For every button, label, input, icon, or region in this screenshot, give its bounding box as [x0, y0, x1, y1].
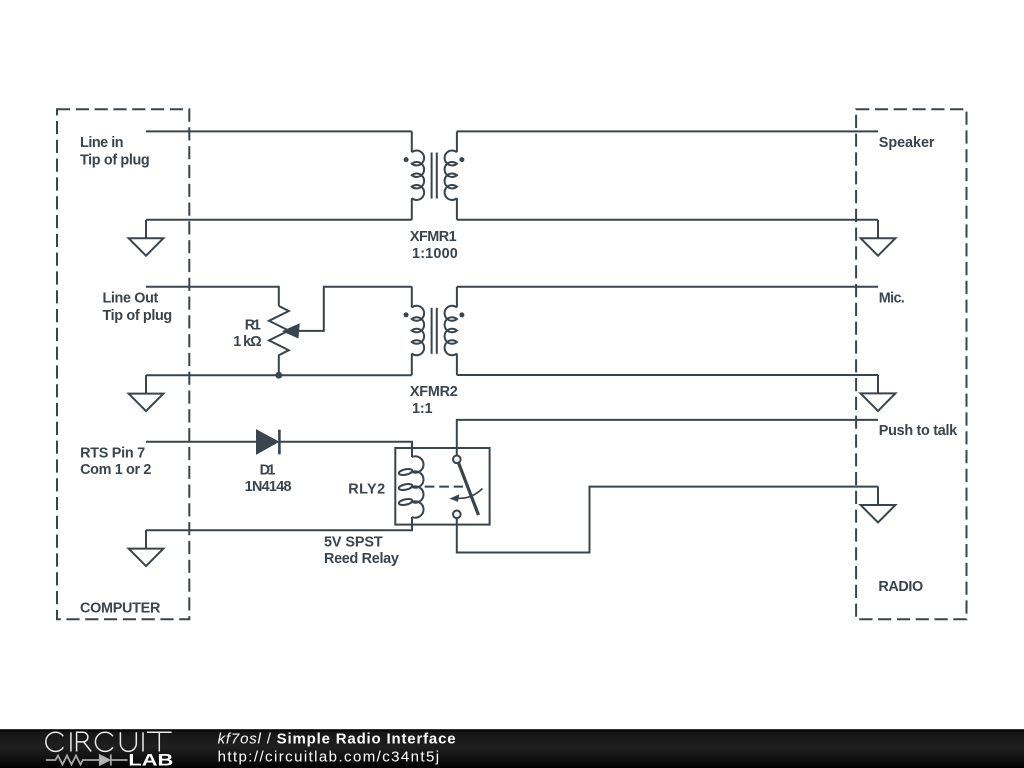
- svg-text:1 kΩ: 1 kΩ: [233, 334, 262, 350]
- svg-text:Line Out: Line Out: [103, 291, 159, 307]
- svg-text:http://circuitlab.com/c34nt5j: http://circuitlab.com/c34nt5j: [218, 748, 441, 765]
- svg-text:Tip of plug: Tip of plug: [80, 152, 150, 168]
- svg-text:Push to talk: Push to talk: [879, 423, 958, 439]
- svg-text:COMPUTER: COMPUTER: [80, 600, 161, 616]
- svg-text:1:1000: 1:1000: [412, 246, 458, 262]
- svg-text:RADIO: RADIO: [878, 579, 923, 595]
- svg-text:LAB: LAB: [128, 751, 173, 768]
- svg-text:RTS Pin 7: RTS Pin 7: [80, 445, 145, 461]
- svg-text:R1: R1: [245, 317, 261, 333]
- svg-text:Com 1 or 2: Com 1 or 2: [80, 462, 151, 478]
- svg-text:1N4148: 1N4148: [245, 479, 292, 495]
- svg-text:kf7osl / Simple Radio Interfac: kf7osl / Simple Radio Interface: [218, 730, 457, 747]
- svg-text:XFMR1: XFMR1: [410, 229, 457, 245]
- svg-text:5V SPST: 5V SPST: [324, 534, 383, 550]
- svg-text:1:1: 1:1: [412, 401, 433, 417]
- svg-text:XFMR2: XFMR2: [410, 384, 458, 400]
- svg-text:RLY2: RLY2: [348, 481, 385, 497]
- svg-text:Mic.: Mic.: [879, 291, 905, 307]
- svg-text:Speaker: Speaker: [879, 135, 935, 151]
- svg-text:Tip of plug: Tip of plug: [103, 308, 173, 324]
- svg-text:Line in: Line in: [80, 135, 124, 151]
- svg-text:D1: D1: [260, 462, 276, 478]
- svg-text:Reed Relay: Reed Relay: [324, 551, 399, 567]
